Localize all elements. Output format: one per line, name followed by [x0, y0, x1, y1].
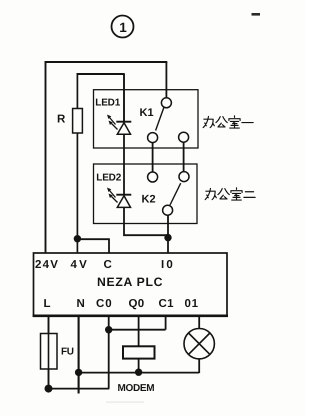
LED2 emission arrows: [107, 188, 118, 203]
wire: K2 common to I0 terminal: [167, 215, 169, 253]
label office 1 (ban gong shi yi): [203, 116, 253, 128]
wire: LED1 top lead: [123, 74, 125, 122]
svg-text:R: R: [57, 114, 66, 126]
junction dot (relay/return): [135, 369, 142, 376]
contact K1: [148, 98, 189, 143]
relay coil (modem): [123, 346, 155, 358]
page number circle 1: [112, 16, 134, 38]
contact K2: [148, 172, 189, 216]
svg-text:N: N: [77, 298, 85, 310]
svg-text:24V: 24V: [35, 259, 59, 271]
svg-text:C0: C0: [96, 298, 113, 310]
wire: left vertical rail (24V): [45, 61, 47, 253]
wire: C0 vertical: [108, 316, 110, 389]
wire: LED1 to LED2: [123, 134, 125, 194]
PLC pin labels bottom row: [44, 298, 199, 310]
LED2 diode: [116, 195, 131, 208]
svg-text:C: C: [104, 259, 112, 271]
wire: Q0 lead: [138, 316, 140, 347]
office box 1: [94, 90, 199, 148]
PLC pin labels top row: [35, 259, 175, 271]
svg-text:4V: 4V: [71, 259, 89, 271]
svg-text:I0: I0: [161, 259, 175, 271]
wire: lamp top lead (01): [198, 316, 200, 329]
wire: relay to return: [138, 359, 140, 373]
wire: LED2 bottom lead to I0 node: [124, 207, 168, 235]
junction dot (C0 node): [105, 326, 112, 333]
wire: fuse bottom lead: [48, 369, 50, 389]
stray scan mark: [252, 13, 261, 16]
office box 2: [94, 164, 198, 224]
svg-text:1: 1: [119, 20, 127, 35]
svg-text:FU: FU: [61, 347, 74, 358]
junction dot (N node): [75, 369, 82, 376]
wire: N vertical: [78, 316, 80, 394]
wire: resistor bottom lead: [76, 133, 78, 254]
wire: 4V node to C terminal: [77, 239, 109, 253]
svg-text:LED1: LED1: [95, 98, 120, 109]
junction dot (fuse/C0 node): [45, 385, 53, 393]
faint smudge under modem: [106, 402, 144, 403]
fuse FU: [41, 334, 58, 370]
svg-text:01: 01: [185, 298, 199, 310]
junction dot (I0 node): [164, 234, 171, 241]
svg-text:L: L: [44, 298, 51, 310]
wire: K1 right contact to box2: [183, 142, 185, 172]
PLC box U1: [33, 253, 228, 316]
wire: drop to K1 common: [165, 62, 167, 98]
wire: lamp bottom lead: [198, 359, 200, 373]
lamp EL1: [184, 329, 214, 359]
LED1 diode: [116, 122, 131, 135]
resistor R: [73, 109, 83, 134]
wire: bottom feed horizontal: [49, 388, 110, 390]
svg-text:NEZA PLC: NEZA PLC: [97, 275, 163, 289]
wire: K1 left contact to box2: [152, 143, 154, 172]
wire: L terminal lead: [48, 316, 50, 334]
svg-text:LED2: LED2: [96, 173, 121, 184]
wire: top horizontal rail: [45, 61, 168, 63]
junction dot (4V node): [74, 235, 81, 242]
wire: return horizontal: [79, 372, 200, 374]
wire: resistor top lead: [76, 74, 78, 109]
label office 2 (ban gong shi er): [205, 188, 255, 200]
svg-text:K1: K1: [140, 107, 154, 119]
wire: C0 to C1 tie: [109, 316, 166, 330]
svg-text:C1: C1: [159, 298, 175, 310]
LED1 emission arrows: [107, 115, 118, 130]
svg-text:Q0: Q0: [129, 298, 145, 310]
svg-text:K2: K2: [142, 194, 156, 206]
wire: resistor/LED top link: [77, 73, 125, 75]
svg-text:MODEM: MODEM: [118, 383, 155, 394]
